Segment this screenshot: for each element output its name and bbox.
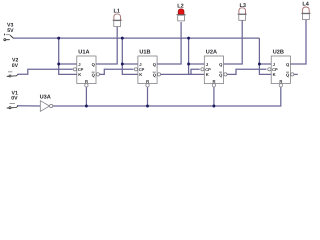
svg-text:L1: L1	[114, 8, 120, 14]
svg-text:U1B: U1B	[139, 50, 150, 56]
svg-text:L4: L4	[302, 2, 309, 8]
svg-text:L2: L2	[177, 4, 183, 10]
svg-text:0V: 0V	[12, 63, 19, 69]
svg-text:U1A: U1A	[78, 50, 89, 56]
svg-text:0V: 0V	[11, 96, 18, 102]
svg-text:U2B: U2B	[273, 50, 284, 56]
svg-text:5V: 5V	[7, 28, 14, 34]
svg-text:U2A: U2A	[206, 50, 217, 56]
svg-text:U3A: U3A	[40, 94, 51, 100]
svg-text:L3: L3	[240, 3, 246, 9]
